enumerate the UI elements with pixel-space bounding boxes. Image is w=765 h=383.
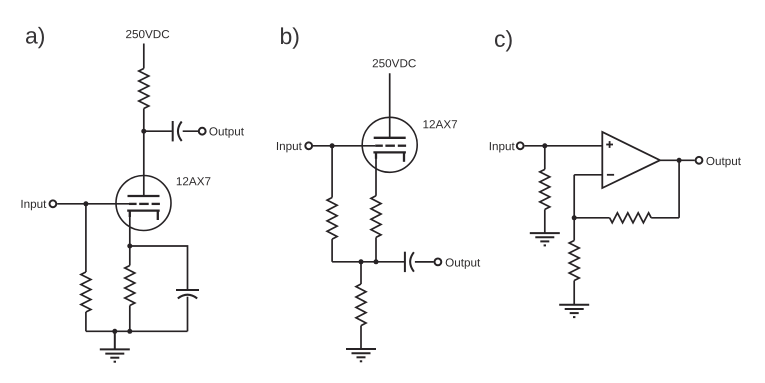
node rail dot cathode b bbox=[374, 259, 379, 264]
wire cathode lead b bbox=[375, 157, 377, 196]
op-amp n/a : tube U1 12AX7 envelope bbox=[116, 176, 171, 231]
node cathode junction a bbox=[127, 244, 132, 249]
wire tail node down b bbox=[360, 262, 362, 284]
node junction dot feedback c bbox=[572, 215, 577, 220]
wire supply drop b bbox=[389, 73, 391, 138]
svg-text:Input: Input bbox=[20, 198, 47, 211]
node junction dot plate/cap a bbox=[141, 129, 146, 134]
wire resistor to ground c1 bbox=[544, 209, 546, 233]
resistor Rc2 feedback bbox=[610, 213, 652, 223]
resistor Rc3 to ground bbox=[569, 241, 579, 281]
wire feedback right segment bbox=[651, 217, 679, 219]
node junction dot input b bbox=[330, 143, 335, 148]
node input terminal c bbox=[517, 142, 524, 149]
node output terminal c bbox=[696, 157, 703, 164]
node junction dot output c bbox=[677, 158, 682, 163]
wire output node down c bbox=[678, 160, 680, 218]
wire resistor to ground b bbox=[360, 326, 362, 349]
svg-text:Output: Output bbox=[209, 125, 245, 138]
ground b bbox=[346, 349, 376, 361]
op-amp U3 bbox=[602, 132, 660, 188]
resistor Ra3 cathode bbox=[125, 266, 135, 306]
wire capacitor to output terminal bbox=[183, 130, 199, 132]
tube U1 cathode bbox=[127, 211, 160, 220]
wire input node down c bbox=[544, 146, 546, 170]
wire feedback left segment bbox=[574, 217, 609, 219]
resistor Rb2 cathode bbox=[371, 196, 381, 238]
wire input terminal to noninverting input bbox=[525, 145, 603, 147]
wire feedback node down c bbox=[573, 218, 575, 241]
svg-text:c): c) bbox=[494, 26, 513, 52]
wire node to capacitor bbox=[144, 130, 172, 132]
svg-text:12AX7: 12AX7 bbox=[423, 118, 458, 131]
node input terminal b bbox=[305, 142, 312, 149]
wire cathode node to bypass cap bbox=[130, 246, 188, 290]
capacitor Ca2 cathode bypass bbox=[176, 290, 199, 298]
svg-text:250VDC: 250VDC bbox=[372, 57, 416, 70]
svg-text:Input: Input bbox=[276, 140, 303, 153]
resistor Rb3 tail bbox=[356, 284, 366, 326]
wire ground rail a bbox=[86, 330, 188, 332]
ground c2 bbox=[559, 305, 589, 317]
wire resistor to rail bbox=[129, 306, 131, 332]
op-amp minus marking bbox=[607, 174, 614, 176]
resistor Rb1 grid leak bbox=[327, 198, 337, 240]
op-amp plus marking bbox=[606, 141, 613, 148]
node input terminal a bbox=[50, 200, 57, 207]
wire inverting input c bbox=[574, 174, 602, 176]
capacitor Cb coupling output bbox=[405, 252, 414, 272]
wire input terminal to grid b bbox=[313, 145, 375, 147]
wire feedback riser c bbox=[573, 175, 575, 218]
tube U1 grid dashes bbox=[129, 203, 160, 205]
capacitor Ca1 coupling output bbox=[173, 121, 182, 141]
wire cathode node down bbox=[129, 246, 131, 266]
wire supply drop a bbox=[143, 44, 145, 69]
resistor Ra1 plate load bbox=[139, 69, 149, 109]
tube U1 plate bbox=[128, 195, 160, 197]
wire grid node down bbox=[85, 204, 87, 272]
svg-text:Output: Output bbox=[445, 257, 481, 270]
svg-text:a): a) bbox=[25, 23, 45, 49]
wire plate to node bbox=[143, 109, 145, 197]
node output terminal b bbox=[435, 259, 442, 266]
tube U2 grid dashes bbox=[375, 145, 406, 147]
node rail dot tail b bbox=[359, 259, 364, 264]
tube U2 12AX7 envelope bbox=[362, 117, 417, 172]
svg-text:Input: Input bbox=[489, 140, 516, 153]
wire resistor to rail bbox=[85, 312, 87, 331]
wire cathode lead a bbox=[129, 215, 131, 246]
svg-text:Output: Output bbox=[706, 155, 742, 168]
wire resistor to ground c2 bbox=[573, 281, 575, 305]
svg-text:12AX7: 12AX7 bbox=[176, 175, 211, 188]
wire grid node down b bbox=[331, 146, 333, 198]
node junction dot input c bbox=[542, 143, 547, 148]
wire bypass cap to rail bbox=[187, 297, 189, 332]
resistor Ra2 grid leak bbox=[81, 272, 91, 312]
wire output c bbox=[660, 159, 695, 161]
node rail dot cathode a bbox=[127, 329, 132, 334]
tube U2 plate bbox=[374, 137, 406, 139]
ground c1 bbox=[530, 233, 560, 245]
svg-text:250VDC: 250VDC bbox=[125, 28, 169, 41]
wire input terminal to grid bbox=[57, 203, 129, 205]
tube U2 cathode bbox=[373, 152, 406, 161]
ground a bbox=[100, 331, 130, 361]
resistor Rc1 input to ground bbox=[540, 169, 550, 209]
wire resistor to rail b bbox=[375, 237, 377, 261]
svg-text:b): b) bbox=[279, 23, 299, 49]
node output terminal a bbox=[199, 128, 206, 135]
wire capacitor to output terminal b bbox=[415, 261, 434, 263]
node rail dot ground a bbox=[112, 329, 117, 334]
node junction dot input a bbox=[83, 201, 88, 206]
wire resistor to rail b bbox=[331, 239, 333, 262]
wire cathode rail b bbox=[332, 261, 404, 263]
